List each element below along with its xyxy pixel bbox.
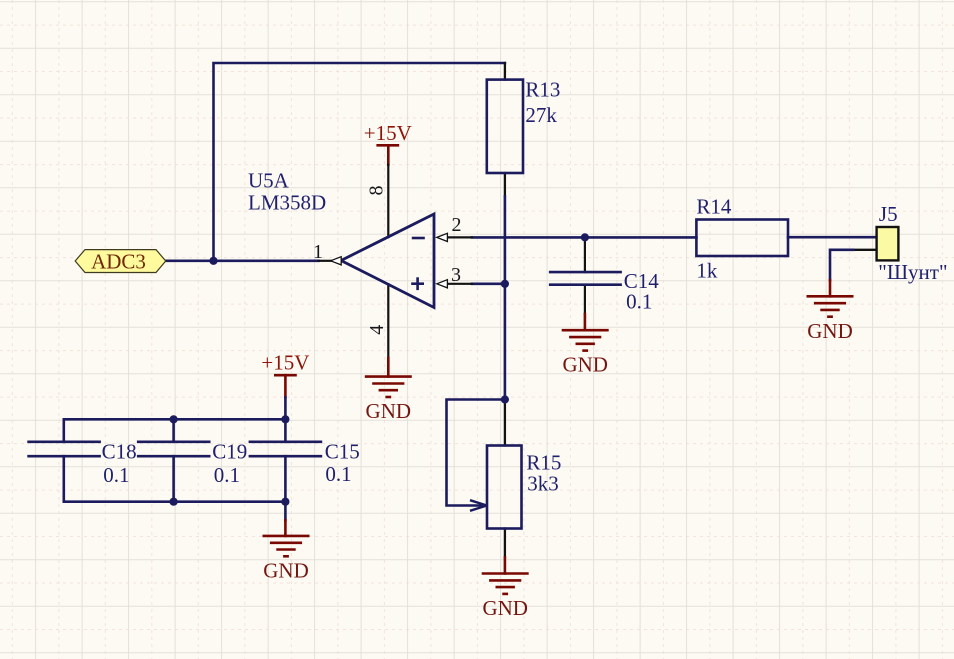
svg-text:C15: C15 [325, 440, 360, 464]
svg-text:+15V: +15V [261, 351, 309, 375]
svg-text:0.1: 0.1 [325, 462, 351, 486]
svg-text:3k3: 3k3 [527, 472, 559, 496]
svg-text:GND: GND [807, 319, 853, 343]
svg-text:ADC3: ADC3 [91, 250, 146, 274]
svg-text:3: 3 [451, 264, 461, 286]
svg-text:C19: C19 [212, 440, 247, 464]
svg-text:R14: R14 [696, 195, 732, 219]
svg-text:1k: 1k [696, 259, 718, 283]
svg-text:2: 2 [452, 214, 462, 236]
svg-text:27k: 27k [525, 103, 557, 127]
svg-text:1: 1 [313, 241, 323, 263]
svg-text:U5A: U5A [248, 169, 290, 193]
svg-text:0.1: 0.1 [626, 290, 652, 314]
svg-text:R13: R13 [525, 78, 560, 102]
svg-text:GND: GND [562, 353, 608, 377]
svg-text:0.1: 0.1 [103, 463, 129, 487]
svg-text:GND: GND [263, 558, 309, 582]
svg-text:GND: GND [366, 399, 412, 423]
svg-text:+15V: +15V [364, 121, 412, 145]
svg-text:C18: C18 [102, 440, 137, 464]
svg-text:LM358D: LM358D [248, 191, 326, 215]
svg-text:0.1: 0.1 [214, 463, 240, 487]
svg-text:"Шунт": "Шунт" [878, 260, 947, 284]
svg-text:4: 4 [366, 325, 388, 335]
svg-text:J5: J5 [879, 202, 898, 226]
svg-text:GND: GND [482, 596, 528, 620]
svg-text:8: 8 [366, 186, 388, 196]
